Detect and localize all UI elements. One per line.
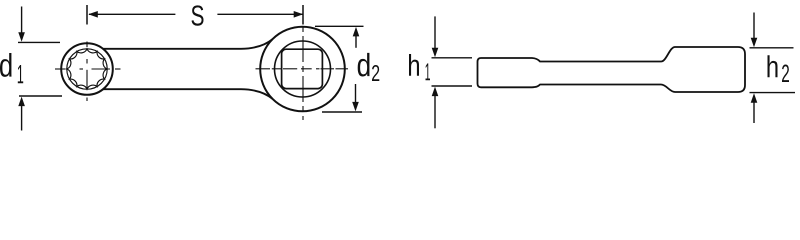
dimension d2 bottom extension line	[322, 111, 362, 113]
dimension d2 bottom arrow shaft	[355, 84, 357, 104]
dimension h2 bottom arrow shaft	[753, 100, 755, 123]
dimension S right arrowhead	[294, 11, 304, 18]
dimension d1 top arrow shaft	[21, 7, 23, 35]
dimension h2 top extension line	[750, 47, 794, 49]
dimension h1 top arrow shaft	[434, 16, 436, 50]
shank bottom edge	[103, 89, 273, 99]
dimension h1 top arrowhead	[432, 48, 439, 58]
dimension S label	[191, 5, 203, 25]
dimension h1 label subscript	[425, 63, 429, 80]
ring head horizontal centerline	[55, 68, 66, 70]
dimension h1 bottom arrowhead	[432, 87, 439, 97]
dimension d1 top extension line	[18, 41, 60, 43]
dimension S right tick	[302, 5, 304, 25]
side view wrench profile	[478, 47, 746, 92]
dimension d2 top arrow shaft	[355, 34, 357, 48]
socket head inner circle	[275, 41, 331, 97]
dimension h2 bottom extension line	[750, 92, 796, 94]
ring head serration circle	[67, 49, 107, 89]
dimension d1 bottom arrow shaft	[21, 105, 23, 131]
dimension d2 label	[358, 53, 370, 77]
socket head horizontal centerline	[256, 68, 271, 70]
dimension d2 top extension line	[315, 25, 364, 27]
dimension S left arrowhead	[88, 11, 98, 18]
dimension h2 bottom arrowhead	[751, 93, 758, 103]
dimension h1 top extension line	[432, 57, 473, 59]
dimension d1 label	[0, 53, 11, 77]
socket head square drive hole	[282, 49, 323, 88]
dimension h2 top arrow shaft	[753, 13, 755, 41]
socket head outer circle	[260, 27, 345, 112]
dimension S left tick	[86, 5, 88, 25]
dimension h1 bottom arrow shaft	[434, 94, 436, 128]
dimension h2 label subscript	[782, 64, 789, 82]
dimension h2 label	[767, 55, 777, 77]
dimension d2 bottom arrowhead	[352, 102, 359, 112]
dimension d1 bottom extension line	[19, 95, 62, 97]
dimension d2 top arrowhead	[353, 27, 360, 37]
socket head vertical centerline	[302, 26, 304, 32]
dimension d1 bottom arrowhead	[18, 97, 25, 107]
ring head 12-point serration profile	[67, 49, 107, 89]
ring head outer circle	[61, 43, 113, 95]
shank top edge	[103, 39, 273, 49]
dimension d1 top arrowhead	[18, 32, 25, 42]
dimension d2 label subscript	[372, 65, 379, 81]
dimension S dimension line left segment	[89, 13, 303, 15]
dimension d1 label subscript	[18, 65, 23, 83]
dimension h2 top arrowhead	[751, 38, 758, 48]
ring head vertical centerline	[86, 42, 88, 48]
dimension h1 label	[409, 54, 419, 76]
dimension S dimension line right segment	[217, 13, 302, 15]
dimension h1 bottom extension line	[432, 85, 473, 87]
